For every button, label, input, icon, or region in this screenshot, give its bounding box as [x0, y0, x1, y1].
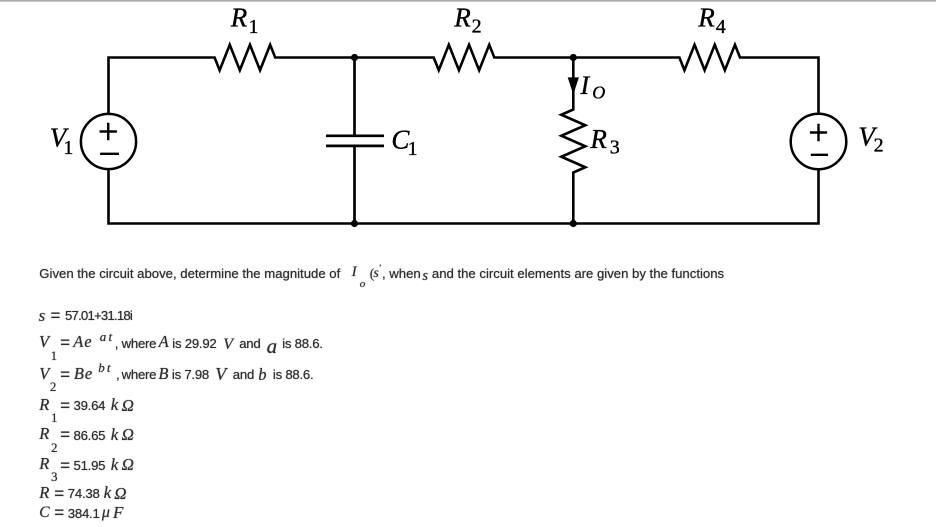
- svg-text:1: 1: [408, 138, 418, 160]
- svg-text:O: O: [592, 82, 605, 102]
- svg-text:4: 4: [716, 16, 726, 38]
- svg-text:I: I: [580, 71, 591, 100]
- svg-text:1: 1: [249, 16, 259, 38]
- svg-text:R: R: [453, 2, 471, 32]
- svg-text:1: 1: [63, 137, 73, 159]
- svg-text:2: 2: [874, 135, 884, 157]
- svg-text:3: 3: [610, 137, 620, 159]
- svg-text:2: 2: [472, 15, 482, 37]
- svg-text:R: R: [697, 2, 715, 32]
- svg-text:R: R: [230, 2, 248, 32]
- svg-text:R: R: [589, 124, 607, 154]
